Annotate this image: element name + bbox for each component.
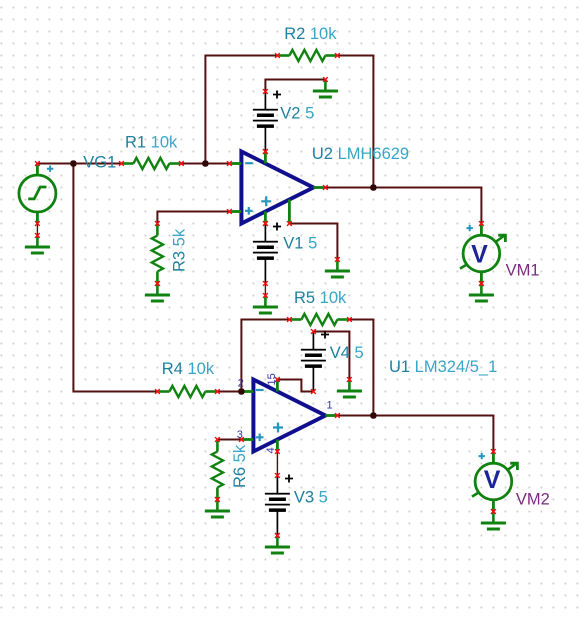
wire U2 noninverting input to R3 bbox=[157, 212, 229, 224]
ground at V1 bbox=[253, 293, 278, 314]
ground at VM1 bbox=[469, 281, 494, 302]
svg-text:4: 4 bbox=[265, 447, 277, 453]
wire U1 output to VM2 bbox=[337, 416, 493, 452]
wire U2 output to VM1 bbox=[325, 188, 481, 224]
wire R4 to U1 pin 2 bbox=[217, 391, 241, 393]
svg-text:R5 10k: R5 10k bbox=[294, 289, 347, 307]
source VG1 bbox=[19, 161, 56, 226]
op-amp U1 body bbox=[241, 380, 337, 452]
ground at V3 bbox=[265, 533, 290, 554]
svg-text:U1 LM324/5_1: U1 LM324/5_1 bbox=[389, 358, 497, 376]
ground at VM2 bbox=[481, 509, 506, 530]
wire R2 to output node bbox=[337, 56, 373, 188]
voltmeter VM1 bbox=[460, 221, 505, 286]
wire V4 plus to ground bbox=[313, 332, 349, 380]
wire feedback tap up bbox=[205, 56, 277, 164]
resistor R2 bbox=[275, 50, 340, 61]
wire R1 to U2 inverting input bbox=[181, 163, 229, 165]
resistor R1 bbox=[119, 158, 184, 169]
U2 inverting input pin bbox=[227, 161, 232, 166]
wire VG1 minus to ground bbox=[36, 224, 38, 236]
svg-text:V1 5: V1 5 bbox=[283, 235, 317, 253]
wire VG1 to R1 bbox=[37, 163, 121, 165]
svg-text:R3 5k: R3 5k bbox=[171, 228, 189, 272]
svg-text:VM2: VM2 bbox=[516, 490, 550, 508]
U2 output pin bbox=[323, 185, 328, 190]
node U2 output junction bbox=[370, 184, 377, 191]
node U1 output junction bbox=[370, 412, 377, 419]
battery V1 bbox=[253, 221, 281, 286]
resistor R3 bbox=[152, 221, 163, 286]
ground at V4 rail bbox=[337, 377, 362, 398]
U1 pin 3 end bbox=[239, 437, 244, 442]
svg-text:U2 LMH6629: U2 LMH6629 bbox=[312, 145, 409, 163]
ground at R6 bbox=[205, 497, 230, 518]
svg-text:R6 5k: R6 5k bbox=[231, 444, 249, 488]
wire U2 pin5 to ground bbox=[289, 224, 337, 260]
svg-text:R2 10k: R2 10k bbox=[284, 25, 337, 43]
U2 noninverting input pin bbox=[227, 209, 232, 214]
svg-text:3: 3 bbox=[237, 429, 243, 441]
battery V4 bbox=[301, 329, 329, 394]
ground at R3 bbox=[145, 281, 170, 302]
ground at U2 pin5 bbox=[325, 257, 350, 278]
node U1 pin2 junction bbox=[238, 388, 245, 395]
U2 shutdown pin bbox=[287, 221, 292, 226]
battery V2 bbox=[253, 89, 281, 154]
wire U1 feedback up to R5 bbox=[241, 320, 289, 392]
battery V3 bbox=[265, 473, 293, 538]
U2 top power pin bbox=[263, 149, 268, 154]
svg-text:V: V bbox=[471, 240, 488, 268]
wire node VG1 down to R4 bbox=[73, 164, 157, 392]
U1 pin 4 end bbox=[275, 449, 280, 454]
svg-text:15: 15 bbox=[266, 373, 278, 385]
voltmeter VM2 bbox=[472, 449, 517, 514]
ground at VG1 bbox=[25, 233, 50, 254]
ground at V2 rail bbox=[313, 77, 338, 98]
resistor R6 bbox=[212, 437, 223, 502]
resistor R4 bbox=[155, 386, 220, 397]
U1 pin 15 end bbox=[275, 377, 280, 382]
svg-text:VG1: VG1 bbox=[83, 154, 116, 172]
U2 bottom power pin bbox=[263, 221, 268, 226]
wire V2 plus to ground bbox=[265, 80, 325, 92]
wire V1 minus to ground bbox=[264, 284, 266, 296]
wire R6 to U1 pin 3 bbox=[217, 439, 241, 441]
svg-text:VM1: VM1 bbox=[506, 262, 540, 280]
svg-text:R4 10k: R4 10k bbox=[162, 360, 215, 378]
svg-text:1: 1 bbox=[327, 399, 333, 411]
op-amp U2 body bbox=[229, 152, 325, 224]
svg-text:V4 5: V4 5 bbox=[330, 344, 364, 362]
svg-text:V3 5: V3 5 bbox=[294, 488, 328, 506]
wire R5 to U1 output node bbox=[349, 320, 373, 416]
node R1-feedback junction bbox=[202, 160, 209, 167]
svg-text:2: 2 bbox=[238, 377, 244, 389]
node VG1 junction bbox=[70, 160, 77, 167]
wire U1 pin 15 to V4 minus bbox=[277, 380, 313, 392]
wire U1 pin 4 to V3 plus bbox=[276, 452, 278, 476]
svg-text:V: V bbox=[484, 466, 501, 494]
svg-text:V2 5: V2 5 bbox=[280, 105, 314, 123]
resistor R5 bbox=[287, 314, 352, 325]
U1 pin 1 end bbox=[335, 413, 340, 418]
svg-text:R1 10k: R1 10k bbox=[125, 134, 178, 152]
